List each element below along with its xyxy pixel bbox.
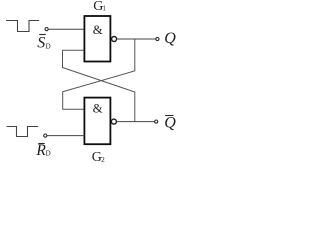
wire Q feedback to G2 pin 1 — [63, 39, 135, 109]
svg-text:&: & — [93, 102, 103, 116]
wire G1 output to Q — [117, 38, 156, 40]
svg-text:D: D — [46, 150, 51, 158]
input pulse waveform at R̄D — [7, 127, 38, 137]
terminal S̄D — [45, 28, 48, 31]
wire Q̄ feedback to G1 pin 2 — [63, 50, 135, 121]
NAND gate G1 body — [84, 16, 110, 62]
label Q̄ — [164, 115, 176, 132]
label R̄D — [35, 142, 50, 159]
wire G2 output to Q̄ — [116, 121, 154, 123]
svg-text:S: S — [37, 35, 45, 52]
terminal Q̄ — [155, 120, 158, 123]
svg-text:2: 2 — [101, 155, 105, 164]
G2 output inversion bubble — [111, 119, 116, 124]
NAND gate G2 body — [84, 98, 110, 145]
wire S̄D to G1 pin 1 — [48, 28, 84, 30]
svg-text:&: & — [93, 23, 103, 37]
terminal R̄D — [44, 134, 47, 137]
G1 output inversion bubble — [112, 37, 117, 42]
svg-text:D: D — [46, 42, 51, 50]
svg-text:1: 1 — [102, 5, 106, 13]
wire R̄D to G2 pin 2 — [47, 135, 84, 137]
terminal Q — [156, 37, 159, 40]
label G1 — [93, 0, 106, 14]
label G2 — [92, 150, 105, 165]
svg-text:Q: Q — [164, 30, 176, 47]
input pulse waveform at S̄D — [6, 21, 39, 32]
svg-text:Q: Q — [164, 115, 176, 132]
label S̄D — [37, 35, 50, 52]
